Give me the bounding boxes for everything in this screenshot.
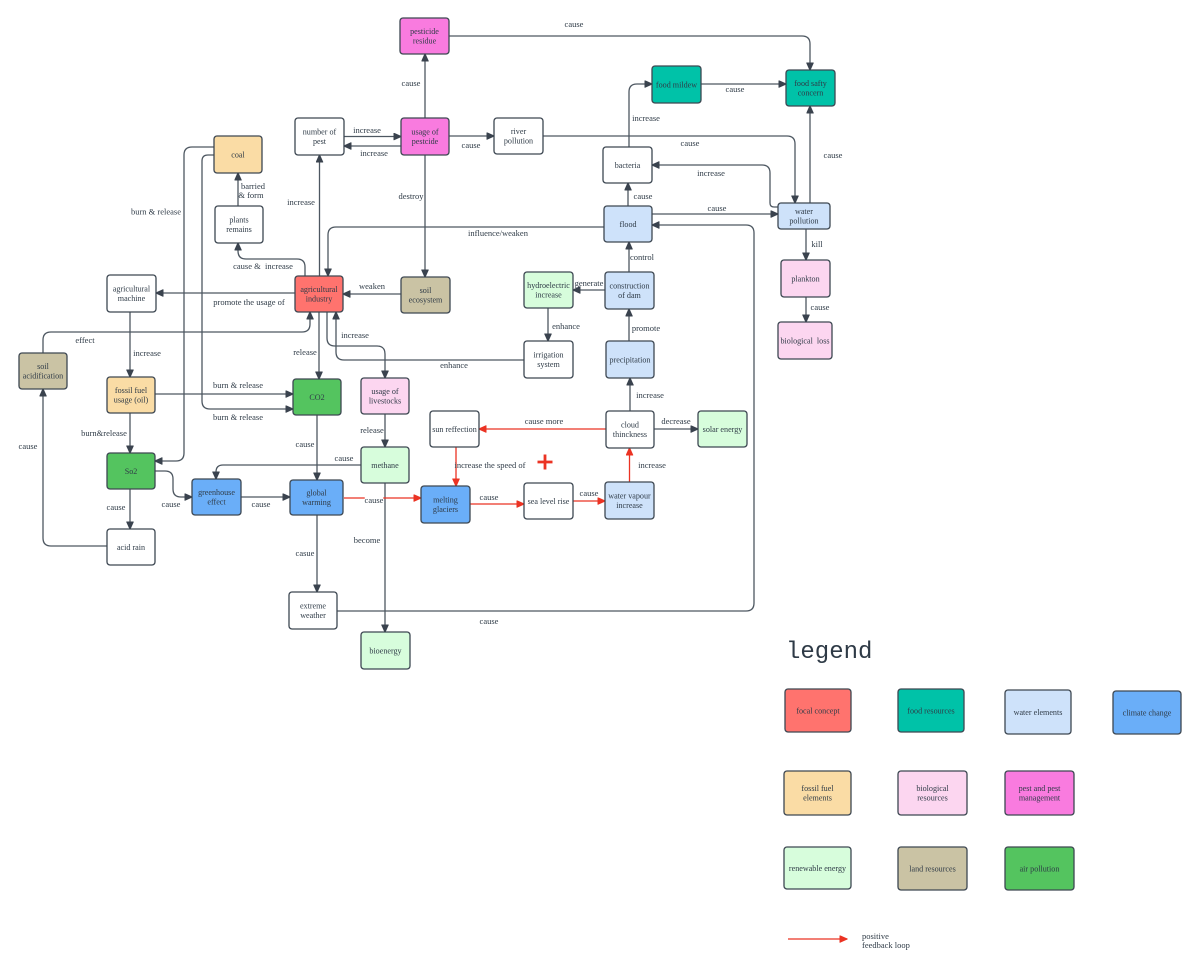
svg-text:pest: pest [313,137,327,146]
node: sea level rise [524,483,573,519]
node: number of pest [295,118,344,155]
svg-text:increase: increase [636,390,664,400]
svg-text:cause: cause [726,84,745,94]
edge: methane to greenhouse effect (cause) [216,453,361,479]
edge: construction of dam to hydroelectric increase (generate) [573,278,605,290]
node: construction of dam [605,272,654,309]
node: soil acidification [19,353,67,389]
node: plants remains [215,206,263,243]
svg-text:increase: increase [133,348,161,358]
edge: water vapour increase to cloud thinckness (increase) [630,448,667,482]
svg-text:sun reffection: sun reffection [432,425,477,434]
legend title [786,639,872,666]
edge: number of pest to usage of pestcide (increase) [344,125,401,137]
node: CO2 [293,379,341,415]
edge: agricultural industry to number of pest (increase) [287,155,319,276]
legend: positive feedback loop arrow [788,931,910,950]
edge: usage of pestcide to river pollution (cause) [449,136,494,150]
svg-text:concern: concern [798,89,824,98]
svg-text:usage of: usage of [411,128,438,137]
node: methane [361,447,409,483]
svg-text:pestcide: pestcide [412,137,439,146]
node: cloud thinckness [606,411,654,448]
node: usage of livestocks [361,378,409,414]
svg-text:global: global [306,489,327,498]
svg-text:plants: plants [229,216,248,225]
svg-text:generate: generate [575,278,604,288]
svg-text:fossil fuel: fossil fuel [801,784,834,793]
svg-text:cause: cause [634,191,653,201]
svg-text:land resources: land resources [909,864,956,873]
svg-text:hydroelectric: hydroelectric [527,281,570,290]
node: legend fossil fuel elements [784,771,851,815]
node: legend food resources [898,689,964,732]
svg-text:industry: industry [306,295,333,304]
edge: CO2 to global warming (cause) [296,415,317,480]
svg-text:cause: cause [565,19,584,29]
edge: water pollution to plankton (kill) [806,229,823,260]
node: irrigation system [524,341,573,378]
edge: river pollution to water pollution (cause) [543,136,795,203]
edge: soil ecosystem to agricultural industry (weaken) [343,281,401,294]
svg-text:solar energy: solar energy [703,425,744,434]
svg-text:feedback loop: feedback loop [862,940,910,950]
svg-text:thinckness: thinckness [613,430,647,439]
svg-text:increase: increase [616,501,643,510]
svg-text:effect: effect [207,498,226,507]
edge: agricultural industry to plants remains (cause & increase) [233,243,305,276]
edge: fossil fuel usage to So2 (burn&release) [81,413,130,453]
svg-text:enhance: enhance [440,360,468,370]
svg-text:increase: increase [535,291,562,300]
svg-text:effect: effect [75,335,95,345]
edge: coal to So2 (burn & release) [131,147,214,461]
svg-text:pesticide: pesticide [410,27,439,36]
svg-text:bioenergy: bioenergy [369,646,402,655]
svg-text:irrigation: irrigation [533,351,563,360]
svg-text:machine: machine [118,294,146,303]
edge: water pollution to food safty concern (cause) [810,106,843,203]
svg-text:plankton: plankton [791,274,819,283]
svg-text:soil: soil [420,286,432,295]
svg-text:release: release [293,347,317,357]
svg-text:number of: number of [303,128,337,137]
svg-text:cause: cause [681,138,700,148]
svg-text:sea level rise: sea level rise [528,497,570,506]
svg-text:cause: cause [19,441,38,451]
svg-text:flood: flood [619,220,636,229]
node: legend pest and pest management [1005,771,1074,815]
svg-text:cause: cause [296,439,315,449]
edge: agricultural machine to fossil fuel usage (increase) [130,312,161,377]
svg-text:food mildew: food mildew [656,80,697,89]
svg-text:acidification: acidification [23,372,63,381]
svg-text:agricultural: agricultural [113,285,151,294]
node: water vapour increase [605,482,654,519]
edge: bacteria to food mildew (increase) [629,84,660,147]
edge: extreme weather to flood (cause) [337,225,754,626]
edge: flood to water pollution (cause) [652,203,778,214]
edge: pesticide residue to food safty concern (cause) [449,19,810,70]
node: precipitation [606,341,654,378]
edge: usage of livestocks to methane (release) [360,414,385,447]
node: melting glaciers [421,486,470,523]
edge: plants remains to coal (barried & form) [238,173,266,206]
svg-text:construction: construction [609,282,649,291]
node: biological loss [778,322,832,359]
svg-text:cause: cause [824,150,843,160]
edge: acid rain to soil acidification (cause) [19,389,107,546]
node: pesticide residue [400,18,449,54]
svg-text:air pollution: air pollution [1020,864,1060,873]
edge: greenhouse effect to global warming (cause) [241,497,290,509]
svg-text:glaciers: glaciers [433,505,458,514]
svg-text:residue: residue [413,37,437,46]
svg-text:water elements: water elements [1014,708,1063,717]
svg-text:control: control [630,252,655,262]
node: hydroelectric increase [524,272,573,308]
node: soil ecosystem [401,277,450,313]
svg-text:water: water [795,207,813,216]
svg-text:promote the usage of: promote the usage of [213,297,285,307]
svg-text:extreme: extreme [300,602,326,611]
node: extreme weather [289,592,337,629]
edge: cloud thinckness to sun reffection (cause more) [479,416,606,429]
node: usage of pestcide [401,118,449,155]
svg-text:increase: increase [632,113,660,123]
svg-text:usage (oil): usage (oil) [114,396,149,405]
edge: irrigation system to agricultural industry (enhance) [336,312,524,370]
svg-text:cause: cause [402,78,421,88]
svg-text:bacteria: bacteria [615,161,641,170]
edge: global warming to melting glaciers (cause) [344,495,421,505]
node: coal [214,136,262,173]
node: bioenergy [361,632,410,669]
svg-text:weather: weather [300,611,326,620]
svg-text:coal: coal [231,150,245,159]
node: global warming [290,480,343,515]
svg-text:enhance: enhance [552,321,580,331]
edge: cloud thinckness to solar energy (decrease) [654,416,698,429]
svg-text:increase: increase [341,330,369,340]
svg-text:pest and pest: pest and pest [1019,784,1062,793]
edge: global warming to extreme weather (casue) [296,515,317,592]
svg-text:acid rain: acid rain [117,543,145,552]
svg-text:increase: increase [353,125,381,135]
node: legend land resources [898,847,967,890]
edge: flood to bacteria (cause) [628,183,653,206]
svg-text:burn & release: burn & release [213,380,263,390]
svg-text:precipitation: precipitation [610,355,651,364]
svg-text:CO2: CO2 [309,393,324,402]
svg-text:pollution: pollution [504,137,533,146]
svg-text:So2: So2 [125,467,138,476]
svg-text:& form: & form [238,190,264,200]
svg-text:increase: increase [697,168,725,178]
svg-text:become: become [354,535,381,545]
svg-text:biological: biological [916,784,949,793]
edge: coal to CO2 (burn & release) [202,155,293,422]
svg-text:renewable energy: renewable energy [789,864,847,873]
svg-text:livestocks: livestocks [369,397,401,406]
svg-text:climate change: climate change [1123,708,1172,717]
node: solar energy [698,411,747,447]
node: fossil fuel usage (oil) [107,377,155,413]
svg-text:fossil fuel: fossil fuel [115,386,148,395]
node: legend focal concept [785,689,851,732]
edge: agricultural industry to usage of livestocks (increase) [327,312,385,378]
svg-text:greenhouse: greenhouse [198,488,235,497]
svg-text:soil: soil [37,362,49,371]
edge: sun reffection to melting glaciers (increase the speed of) [454,447,525,486]
svg-text:influence/weaken: influence/weaken [468,228,529,238]
edge: usage of pestcide to soil ecosystem (destroy) [398,155,425,277]
svg-text:cause: cause [107,502,126,512]
node: flood [604,206,652,242]
svg-text:cause: cause [480,616,499,626]
node: food safty concern [786,70,835,106]
svg-text:methane: methane [371,461,399,470]
node: legend biological resources [898,771,967,815]
svg-text:river: river [511,127,527,136]
edge: flood to agricultural industry (influence/weaken) [328,227,604,276]
node: water pollution [778,203,830,229]
svg-text:system: system [537,360,560,369]
svg-text:cause & increase: cause & increase [233,261,293,271]
svg-text:cause: cause [252,499,271,509]
svg-text:release: release [360,425,384,435]
svg-text:increase the speed of: increase the speed of [454,460,525,470]
node: food mildew [652,66,701,103]
svg-text:cause: cause [365,495,384,505]
svg-text:management: management [1019,794,1061,803]
node: greenhouse effect [192,479,241,515]
node: sun reffection [430,411,479,447]
svg-text:cause: cause [162,499,181,509]
svg-text:focal concept: focal concept [796,706,840,715]
svg-text:cloud: cloud [621,421,639,430]
node: acid rain [107,529,155,565]
svg-text:burn & release: burn & release [131,207,181,217]
svg-text:warming: warming [302,498,331,507]
edge: precipitation to construction of dam (promote) [629,309,660,341]
svg-text:weaken: weaken [359,281,386,291]
edge: hydroelectric increase to irrigation system (enhance) [548,308,580,341]
svg-text:resources: resources [917,794,948,803]
svg-text:increase: increase [638,460,666,470]
svg-text:casue: casue [296,548,315,558]
svg-text:pollution: pollution [789,217,818,226]
svg-text:food resources: food resources [907,706,954,715]
svg-text:cause: cause [480,492,499,502]
node: legend air pollution [1005,847,1074,890]
svg-text:increase: increase [287,197,315,207]
node: plankton [781,260,830,297]
svg-text:usage of: usage of [371,387,398,396]
svg-text:legend: legend [786,639,872,666]
svg-text:increase: increase [360,148,388,158]
edge: usage of pestcide to number of pest (increase) [344,146,401,158]
edge: fossil fuel usage to CO2 (burn & release) [155,380,293,394]
svg-text:cause: cause [811,302,830,312]
edge: sea level rise to water vapour increase (cause) [573,488,605,501]
svg-text:agricultural: agricultural [300,285,338,294]
svg-text:burn&release: burn&release [81,428,127,438]
svg-text:kill: kill [811,239,823,249]
edge: soil acidification to agricultural industry (effect) [43,312,310,353]
edge: methane to bioenergy (become) [354,483,385,632]
edge: usage of pestcide to pesticide residue (cause) [402,54,425,118]
node: bacteria [603,147,652,183]
svg-text:melting: melting [433,496,458,505]
edge: melting glaciers to sea level rise (cause) [470,492,524,504]
node: legend water elements [1005,690,1071,734]
svg-text:ecosystem: ecosystem [409,296,443,305]
svg-text:burn & release: burn & release [213,412,263,422]
svg-text:biological loss: biological loss [780,336,829,345]
svg-text:cause: cause [462,140,481,150]
edge: construction of dam to flood (control) [629,242,655,272]
svg-text:of dam: of dam [618,291,641,300]
svg-text:cause: cause [580,488,599,498]
svg-text:food safty: food safty [794,79,828,88]
svg-text:cause: cause [708,203,727,213]
svg-text:elements: elements [803,794,832,803]
edge: So2 to greenhouse effect (cause) [155,471,192,509]
svg-text:promote: promote [632,323,661,333]
node: legend renewable energy [784,847,851,889]
svg-text:water vapour: water vapour [608,492,651,501]
edge: agricultural industry to CO2 (release) [293,312,319,379]
edge: So2 to acid rain (cause) [107,489,130,529]
svg-text:destroy: destroy [398,191,424,201]
positive feedback plus sign [538,455,553,470]
svg-text:remains: remains [226,225,252,234]
edge: food mildew to food safty concern (cause) [701,84,786,94]
node: river pollution [494,118,543,154]
edge: cloud thinckness to precipitation (increase) [630,378,664,411]
svg-text:decrease: decrease [661,416,690,426]
node: legend climate change [1113,691,1181,734]
node: agricultural machine [107,275,156,312]
node: So2 [107,453,155,489]
edge: water pollution to bacteria (increase) [652,165,778,207]
edge: plankton to biological loss (cause) [806,297,830,322]
node: agricultural industry [295,276,343,312]
edge: agricultural industry to agricultural machine (promote the usage of) [156,293,295,307]
svg-text:cause more: cause more [525,416,564,426]
svg-text:cause: cause [335,453,354,463]
